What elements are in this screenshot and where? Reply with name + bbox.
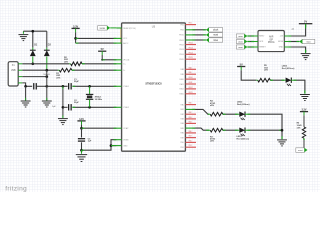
wire R6 to reset flag [303, 138, 305, 148]
grid background [0, 0, 320, 192]
svg-text:miso: miso [213, 40, 219, 42]
svg-text:PA4: PA4 [181, 122, 184, 125]
svg-text:RESET: RESET [259, 47, 266, 49]
connector J3 AVR ISP [258, 31, 284, 52]
wire 3.3V to AVCC pin [76, 42, 117, 44]
J3 left pin SCK [254, 41, 258, 43]
wire R5 to LED3 [270, 79, 284, 81]
net flag reset (J3) [236, 45, 244, 49]
svg-text:22µF: 22µF [74, 81, 80, 83]
junction node D- at D2 [45, 69, 48, 72]
vertical gnd drop to C2 [62, 86, 64, 117]
J3 left pin MISO [254, 35, 258, 37]
svg-text:PA4: PA4 [189, 120, 192, 123]
wire J3 VCC to 5V [288, 24, 305, 36]
USB pin leg [18, 63, 22, 65]
svg-text:PB12: PB12 [189, 43, 193, 45]
ground GND6 (LED3) [304, 91, 306, 94]
svg-text:PA11: PA11 [189, 81, 193, 84]
svg-text:3.3V: 3.3V [73, 24, 79, 28]
IC right pin PA10 unconnected [185, 78, 196, 80]
svg-text:PA2: PA2 [189, 111, 192, 114]
resistor R1 [59, 68, 72, 72]
svg-text:RESET(PC14): RESET(PC14) [123, 28, 136, 30]
svg-text:PA12: PA12 [189, 86, 193, 89]
wire 5V to IC pin [102, 59, 116, 61]
svg-text:PB0: PB0 [180, 142, 183, 144]
wire gnd row to C1 [47, 85, 68, 87]
svg-text:PA3: PA3 [181, 118, 184, 121]
wire IC to flag mosi [193, 34, 206, 36]
capacitor C2 [63, 106, 68, 108]
svg-text:PA15: PA15 [180, 93, 184, 96]
svg-text:PB13: PB13 [179, 49, 183, 51]
svg-text:reset: reset [238, 46, 243, 49]
IC right pin PA3 unconnected [185, 118, 196, 120]
net flag reset (pullup) [296, 148, 305, 153]
svg-text:VSSB: VSSB [123, 140, 129, 142]
svg-text:PB15: PB15 [189, 57, 193, 59]
svg-text:PB13: PB13 [189, 47, 193, 49]
svg-text:mosi: mosi [213, 35, 218, 37]
ground GND7 (bottom center) [81, 150, 83, 154]
svg-text:XTAL1: XTAL1 [123, 85, 129, 88]
wire R4 to LED2 [223, 113, 238, 115]
net flag clock [209, 28, 223, 32]
svg-text:PA7: PA7 [181, 136, 184, 139]
svg-text:AVR: AVR [269, 36, 274, 39]
net flag VUSB [98, 26, 108, 30]
svg-text:(PC13): (PC13) [123, 60, 129, 62]
IC right pin PA9 unconnected [185, 73, 196, 75]
IC right pin PB10 [185, 34, 192, 36]
ground GND5 (J3) [305, 50, 307, 53]
wire R3 to LED1 [223, 129, 238, 131]
svg-text:PA7: PA7 [189, 135, 192, 138]
IC left pin (PC13) [116, 59, 121, 61]
LED LED3 [284, 79, 285, 81]
svg-text:PA10: PA10 [180, 78, 184, 81]
IC right pin PA2 unconnected [185, 113, 196, 115]
svg-text:USB: USB [11, 70, 16, 72]
IC right pin PA11 unconnected [185, 83, 196, 85]
IC right pin PB0 unconnected [185, 141, 196, 143]
svg-text:Red (633nm): Red (633nm) [237, 104, 250, 106]
svg-text:XTAL2: XTAL2 [123, 106, 129, 109]
svg-text:PA6: PA6 [189, 130, 192, 133]
svg-text:±5%: ±5% [264, 70, 268, 72]
svg-text:5V: 5V [304, 20, 307, 24]
svg-text:PB14: PB14 [189, 52, 193, 54]
wire J3 GND down [288, 47, 305, 52]
IC right pin PB11 [185, 39, 192, 41]
IC left pin AVCC [116, 42, 121, 44]
wire J3 MOSI to mosi flag [288, 41, 299, 43]
svg-text:ISP: ISP [269, 39, 273, 41]
IC left pin XTAL2 [116, 106, 121, 108]
capacitor C5 (shield) [33, 83, 35, 89]
wire miso flag to J3 [247, 35, 254, 37]
svg-text:5V: 5V [101, 47, 104, 51]
svg-text:PA3: PA3 [189, 116, 192, 119]
IC left pin GND [116, 145, 121, 147]
IC right pin PB12 unconnected [185, 44, 196, 46]
svg-text:PA11: PA11 [180, 83, 184, 86]
IC left pin VCAP [116, 127, 121, 129]
wire GND pins to bottom rail [82, 140, 117, 151]
IC left pin D+ [116, 63, 121, 65]
IC right pin PB13 unconnected [185, 48, 196, 50]
svg-text:PB1: PB1 [189, 145, 192, 147]
wire clock flag to J3 [247, 41, 254, 43]
IC U3 STM32 [122, 23, 186, 151]
IC right pin PA12 unconnected [185, 88, 196, 90]
svg-text:±5%: ±5% [297, 127, 301, 129]
wire PA1 to R4 [193, 109, 209, 114]
svg-text:PA1: PA1 [180, 108, 183, 111]
IC right pin PA0 unconnected [185, 104, 196, 106]
IC left pin D- [116, 69, 121, 71]
wire 5V to R5 [241, 70, 256, 80]
svg-text:PB10: PB10 [179, 35, 184, 37]
wire R1 to IC pin D- [72, 69, 117, 71]
USB pin leg [18, 69, 22, 71]
svg-text:VUSB: VUSB [99, 28, 105, 30]
wire PA5 to R3 [193, 128, 209, 130]
IC right pin PA7 unconnected [185, 137, 196, 139]
svg-text:PB11: PB11 [179, 40, 183, 42]
svg-text:5V: 5V [240, 62, 243, 66]
svg-text:Red (633nm): Red (633nm) [237, 138, 250, 140]
resistor R4 [210, 112, 223, 116]
IC right pin PB1 unconnected [185, 146, 196, 148]
resistor R3 [210, 128, 223, 132]
J3 right pin MOSI [284, 41, 288, 43]
LED LED1 [238, 129, 240, 131]
svg-text:±5%: ±5% [64, 61, 68, 63]
junction node at D1 top [31, 30, 34, 33]
IC left pin VCC [116, 37, 121, 39]
wire tan vertical [120, 28, 122, 43]
svg-text:PB12: PB12 [179, 44, 183, 46]
svg-text:D-: D- [123, 70, 125, 72]
J3 left pin RESET [254, 46, 258, 48]
wire row D- (USB pin2 to R1) [22, 69, 58, 71]
USB connector X1 [8, 62, 18, 86]
diode D1 [32, 31, 34, 47]
svg-text:PA9: PA9 [189, 71, 192, 74]
wire C2 to IC XTAL2 row [72, 106, 116, 108]
svg-text:AVCC: AVCC [123, 42, 129, 45]
wire C1 to IC XTAL1 row [72, 85, 116, 87]
net flag clock (J3) [236, 39, 244, 43]
wire reset flag to J3 [247, 46, 254, 48]
wire 3.3V to VCC pin [76, 37, 117, 39]
capacitor C3 [81, 128, 83, 137]
IC right pin PB15 unconnected [185, 58, 196, 60]
resistor R6 [302, 127, 305, 138]
J3 right pin +5V [284, 35, 288, 37]
svg-text:PA12: PA12 [180, 88, 184, 91]
svg-text:PA5: PA5 [180, 127, 183, 130]
wire USB pin4 to shield cap [22, 83, 32, 86]
svg-text:GND: GND [279, 47, 284, 49]
svg-text:GND: GND [123, 145, 128, 147]
svg-text:VCC: VCC [123, 38, 128, 40]
resistor R2 [71, 62, 82, 66]
svg-text:PA8: PA8 [181, 68, 184, 71]
svg-text:±5%: ±5% [210, 141, 214, 143]
wire row D+ (USB pin1 to R2) [22, 63, 69, 65]
ground GND2 below USB [25, 86, 27, 100]
ground GND3 [45, 85, 48, 88]
USB pin leg [18, 76, 22, 78]
IC right pin PB1 unconnected [185, 24, 196, 26]
net flag miso (J3) [236, 34, 244, 38]
svg-text:PB15: PB15 [179, 59, 183, 61]
wire GND2 pin [111, 145, 116, 147]
svg-text:PA15: PA15 [189, 91, 193, 94]
IC left pin VSSB [116, 139, 121, 141]
IC right pin PA6 unconnected [185, 132, 196, 134]
IC right pin PA8 unconnected [185, 68, 196, 70]
net flag miso [209, 38, 223, 42]
wire IC to flag clock [193, 29, 206, 31]
wire row GND (USB pin3) [22, 76, 47, 78]
wire LED1 to ground [248, 129, 283, 131]
svg-text:XTAL1: XTAL1 [95, 95, 103, 98]
svg-text:MISO: MISO [259, 36, 264, 38]
svg-text:PROG: PROG [268, 42, 275, 44]
svg-text:PA2: PA2 [181, 113, 184, 116]
svg-text:clock: clock [238, 41, 243, 43]
capacitor C1 [68, 83, 70, 89]
IC left pin RESET(PC14) [116, 27, 121, 29]
svg-text:Red (633nm): Red (633nm) [282, 68, 295, 70]
svg-text:PA8: PA8 [189, 66, 192, 69]
svg-text:±5%: ±5% [56, 77, 60, 79]
junction node D+ at D1 [31, 62, 34, 65]
J3 right pin GND [284, 46, 288, 48]
svg-text:PA10: PA10 [189, 76, 193, 79]
resistor R5 [258, 78, 271, 82]
IC right pin PA4 unconnected [185, 122, 196, 124]
wire VUSB to RESET pin [110, 27, 116, 29]
svg-text:STM32F103C8: STM32F103C8 [145, 82, 162, 85]
svg-text:16 MHz: 16 MHz [95, 99, 103, 101]
ground GND1 (top left) [22, 31, 24, 34]
svg-text:PA6: PA6 [181, 132, 184, 135]
svg-text:PB1: PB1 [189, 23, 192, 25]
LED LED2 [238, 113, 240, 115]
svg-text:fritzing: fritzing [5, 185, 27, 192]
svg-text:PA9: PA9 [181, 73, 184, 76]
wire R2 to IC pin D+ [82, 63, 116, 65]
ground GND4 (LEDs) [281, 137, 283, 140]
net flag mosi [209, 33, 223, 37]
IC right pin PB14 unconnected [185, 53, 196, 55]
svg-text:PB2: PB2 [180, 30, 184, 32]
svg-text:reset: reset [298, 149, 303, 152]
wire LED3 to ground [294, 80, 305, 93]
svg-text:PA0: PA0 [181, 103, 184, 106]
svg-text:PB1: PB1 [180, 147, 183, 149]
IC left pin XTAL1 [116, 85, 121, 87]
wire IC to flag miso [193, 39, 206, 41]
IC right pin PA5 [185, 127, 192, 129]
diode D2 [46, 31, 48, 47]
svg-text:VCAP: VCAP [123, 127, 129, 130]
svg-text:PB1: PB1 [180, 24, 183, 26]
IC right pin PA1 [185, 108, 192, 110]
svg-text:clock: clock [213, 30, 219, 32]
IC right pin PB2 [185, 29, 192, 31]
wire LED2 to ground corner [248, 114, 283, 139]
svg-text:MOSI: MOSI [278, 41, 283, 43]
wire 3.3V to VCAP pin [82, 127, 117, 129]
svg-text:±5%: ±5% [210, 105, 214, 107]
wire top-left horizontal [23, 30, 46, 32]
svg-text:22µF: 22µF [74, 102, 80, 104]
svg-text:PA0: PA0 [189, 102, 192, 105]
IC right pin PA15 unconnected [185, 93, 196, 95]
svg-text:PB0: PB0 [189, 140, 192, 142]
svg-text:mosi: mosi [306, 41, 311, 43]
svg-text:PB14: PB14 [179, 54, 183, 56]
crystal XTAL1 [89, 86, 91, 94]
USB pin leg [18, 82, 22, 84]
